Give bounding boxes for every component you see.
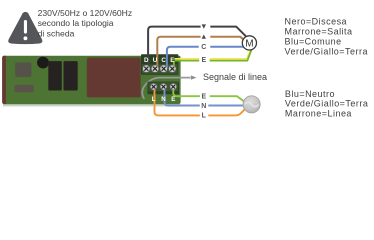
svg-text:L: L	[152, 96, 156, 103]
svg-text:U: U	[153, 57, 158, 64]
svg-text:C: C	[201, 44, 206, 51]
svg-text:M: M	[245, 38, 253, 49]
svg-text:Verde/Giallo=Terra: Verde/Giallo=Terra	[285, 46, 368, 56]
svg-text:Nero=Discesa: Nero=Discesa	[285, 17, 348, 27]
svg-text:Blu=Neutro: Blu=Neutro	[285, 89, 335, 99]
svg-text:N: N	[161, 96, 166, 103]
svg-text:Marrone=Linea: Marrone=Linea	[285, 108, 352, 118]
svg-text:di scheda: di scheda	[38, 28, 75, 38]
svg-text:C: C	[161, 57, 166, 64]
svg-text:E: E	[201, 94, 206, 101]
svg-text:L: L	[202, 113, 207, 120]
svg-text:D: D	[144, 57, 149, 64]
svg-text:secondo la tipologia: secondo la tipologia	[38, 18, 114, 28]
svg-text:E: E	[201, 57, 206, 64]
svg-text:Blu=Comune: Blu=Comune	[285, 36, 342, 46]
svg-text:Verde/Giallo=Terra: Verde/Giallo=Terra	[285, 99, 368, 109]
svg-text:N: N	[201, 103, 206, 110]
svg-text:Segnale di linea: Segnale di linea	[203, 72, 267, 82]
svg-text:Marrone=Salita: Marrone=Salita	[285, 27, 353, 37]
svg-text:E: E	[170, 57, 174, 64]
svg-text:E: E	[171, 96, 175, 103]
svg-text:230V/50Hz o 120V/60Hz: 230V/50Hz o 120V/60Hz	[38, 8, 133, 18]
